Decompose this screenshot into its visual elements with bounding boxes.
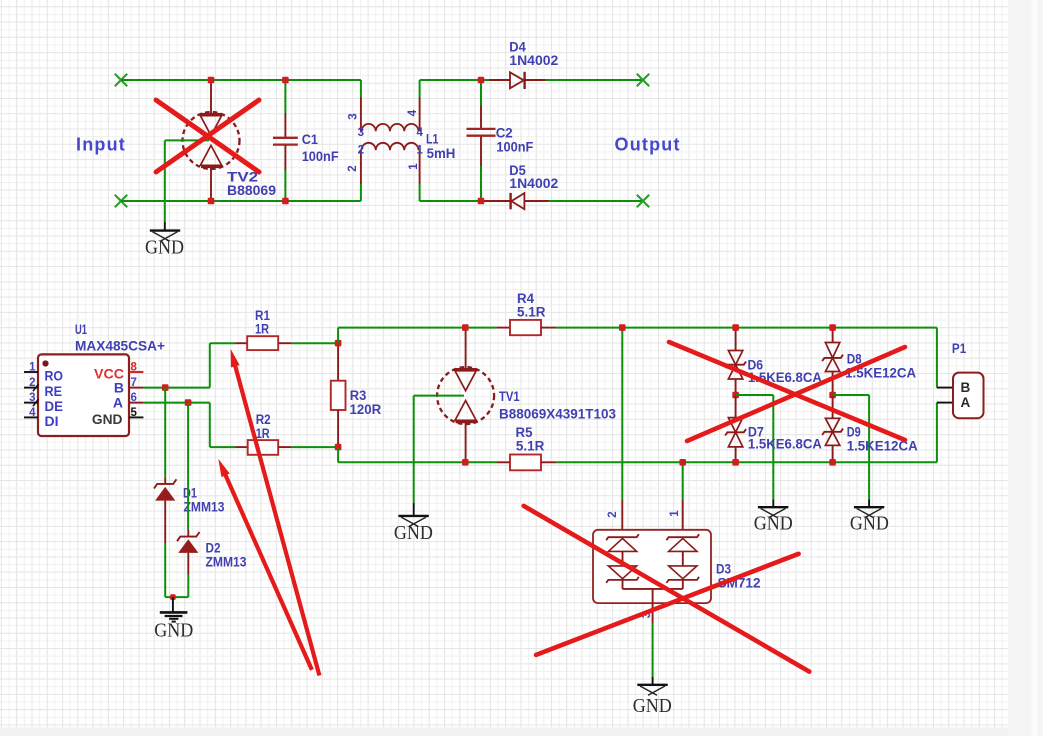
svg-text:A: A (113, 394, 123, 410)
svg-text:7: 7 (131, 377, 137, 389)
svg-text:D9: D9 (847, 424, 861, 439)
svg-text:2: 2 (358, 145, 364, 157)
svg-text:B: B (961, 380, 971, 395)
svg-text:1.5KE12CA: 1.5KE12CA (847, 439, 918, 454)
svg-text:1R: 1R (255, 322, 269, 337)
svg-text:1N4002: 1N4002 (509, 176, 558, 191)
svg-text:GND: GND (850, 512, 889, 534)
svg-text:5mH: 5mH (427, 146, 456, 161)
svg-text:D2: D2 (206, 541, 221, 556)
svg-text:1R: 1R (256, 426, 270, 441)
svg-text:D3: D3 (716, 562, 731, 577)
svg-text:100nF: 100nF (302, 149, 339, 164)
svg-text:3: 3 (358, 127, 364, 139)
svg-text:5.1R: 5.1R (517, 305, 546, 320)
svg-text:4: 4 (417, 127, 424, 139)
svg-text:1: 1 (417, 145, 424, 157)
svg-text:3: 3 (29, 392, 35, 404)
svg-text:C2: C2 (496, 126, 513, 141)
svg-text:2: 2 (347, 165, 359, 171)
svg-text:6: 6 (131, 392, 137, 404)
svg-text:GND: GND (394, 522, 433, 544)
svg-text:GND: GND (145, 237, 184, 259)
svg-text:MAX485CSA+: MAX485CSA+ (75, 339, 165, 354)
svg-text:1N4002: 1N4002 (509, 53, 558, 68)
svg-text:8: 8 (131, 362, 138, 374)
svg-text:4: 4 (407, 109, 419, 116)
svg-text:100nF: 100nF (496, 139, 533, 154)
svg-text:D1: D1 (183, 486, 197, 501)
svg-text:1: 1 (29, 362, 36, 374)
svg-text:RE: RE (45, 383, 63, 399)
svg-text:B: B (114, 379, 124, 395)
svg-text:DI: DI (45, 413, 59, 429)
svg-text:3: 3 (348, 113, 360, 119)
svg-text:2: 2 (29, 377, 35, 389)
svg-text:Input: Input (76, 134, 126, 154)
svg-text:L1: L1 (426, 132, 439, 147)
svg-text:GND: GND (154, 619, 193, 641)
svg-text:120R: 120R (350, 402, 382, 417)
svg-text:GND: GND (754, 512, 793, 534)
svg-text:1: 1 (669, 510, 681, 517)
svg-text:B88069: B88069 (227, 183, 276, 198)
svg-text:B88069X4391T103: B88069X4391T103 (499, 407, 616, 422)
svg-text:GND: GND (92, 411, 123, 427)
svg-text:RO: RO (45, 367, 64, 383)
svg-text:R3: R3 (350, 388, 367, 403)
svg-text:TV1: TV1 (499, 389, 520, 404)
svg-text:C1: C1 (302, 132, 319, 147)
svg-text:DE: DE (45, 398, 64, 414)
svg-text:GND: GND (633, 695, 672, 717)
svg-text:5.1R: 5.1R (516, 438, 545, 453)
svg-text:1: 1 (408, 163, 420, 170)
svg-text:A: A (961, 395, 971, 410)
svg-text:4: 4 (29, 407, 36, 419)
svg-text:Output: Output (615, 135, 681, 155)
svg-text:2: 2 (607, 511, 619, 517)
svg-text:1.5KE6.8CA: 1.5KE6.8CA (748, 437, 822, 452)
svg-text:U1: U1 (75, 322, 87, 337)
svg-text:ZMM13: ZMM13 (184, 500, 225, 515)
svg-text:P1: P1 (952, 341, 967, 356)
svg-text:ZMM13: ZMM13 (206, 555, 247, 570)
svg-text:5: 5 (131, 407, 138, 419)
svg-text:R2: R2 (256, 412, 271, 427)
